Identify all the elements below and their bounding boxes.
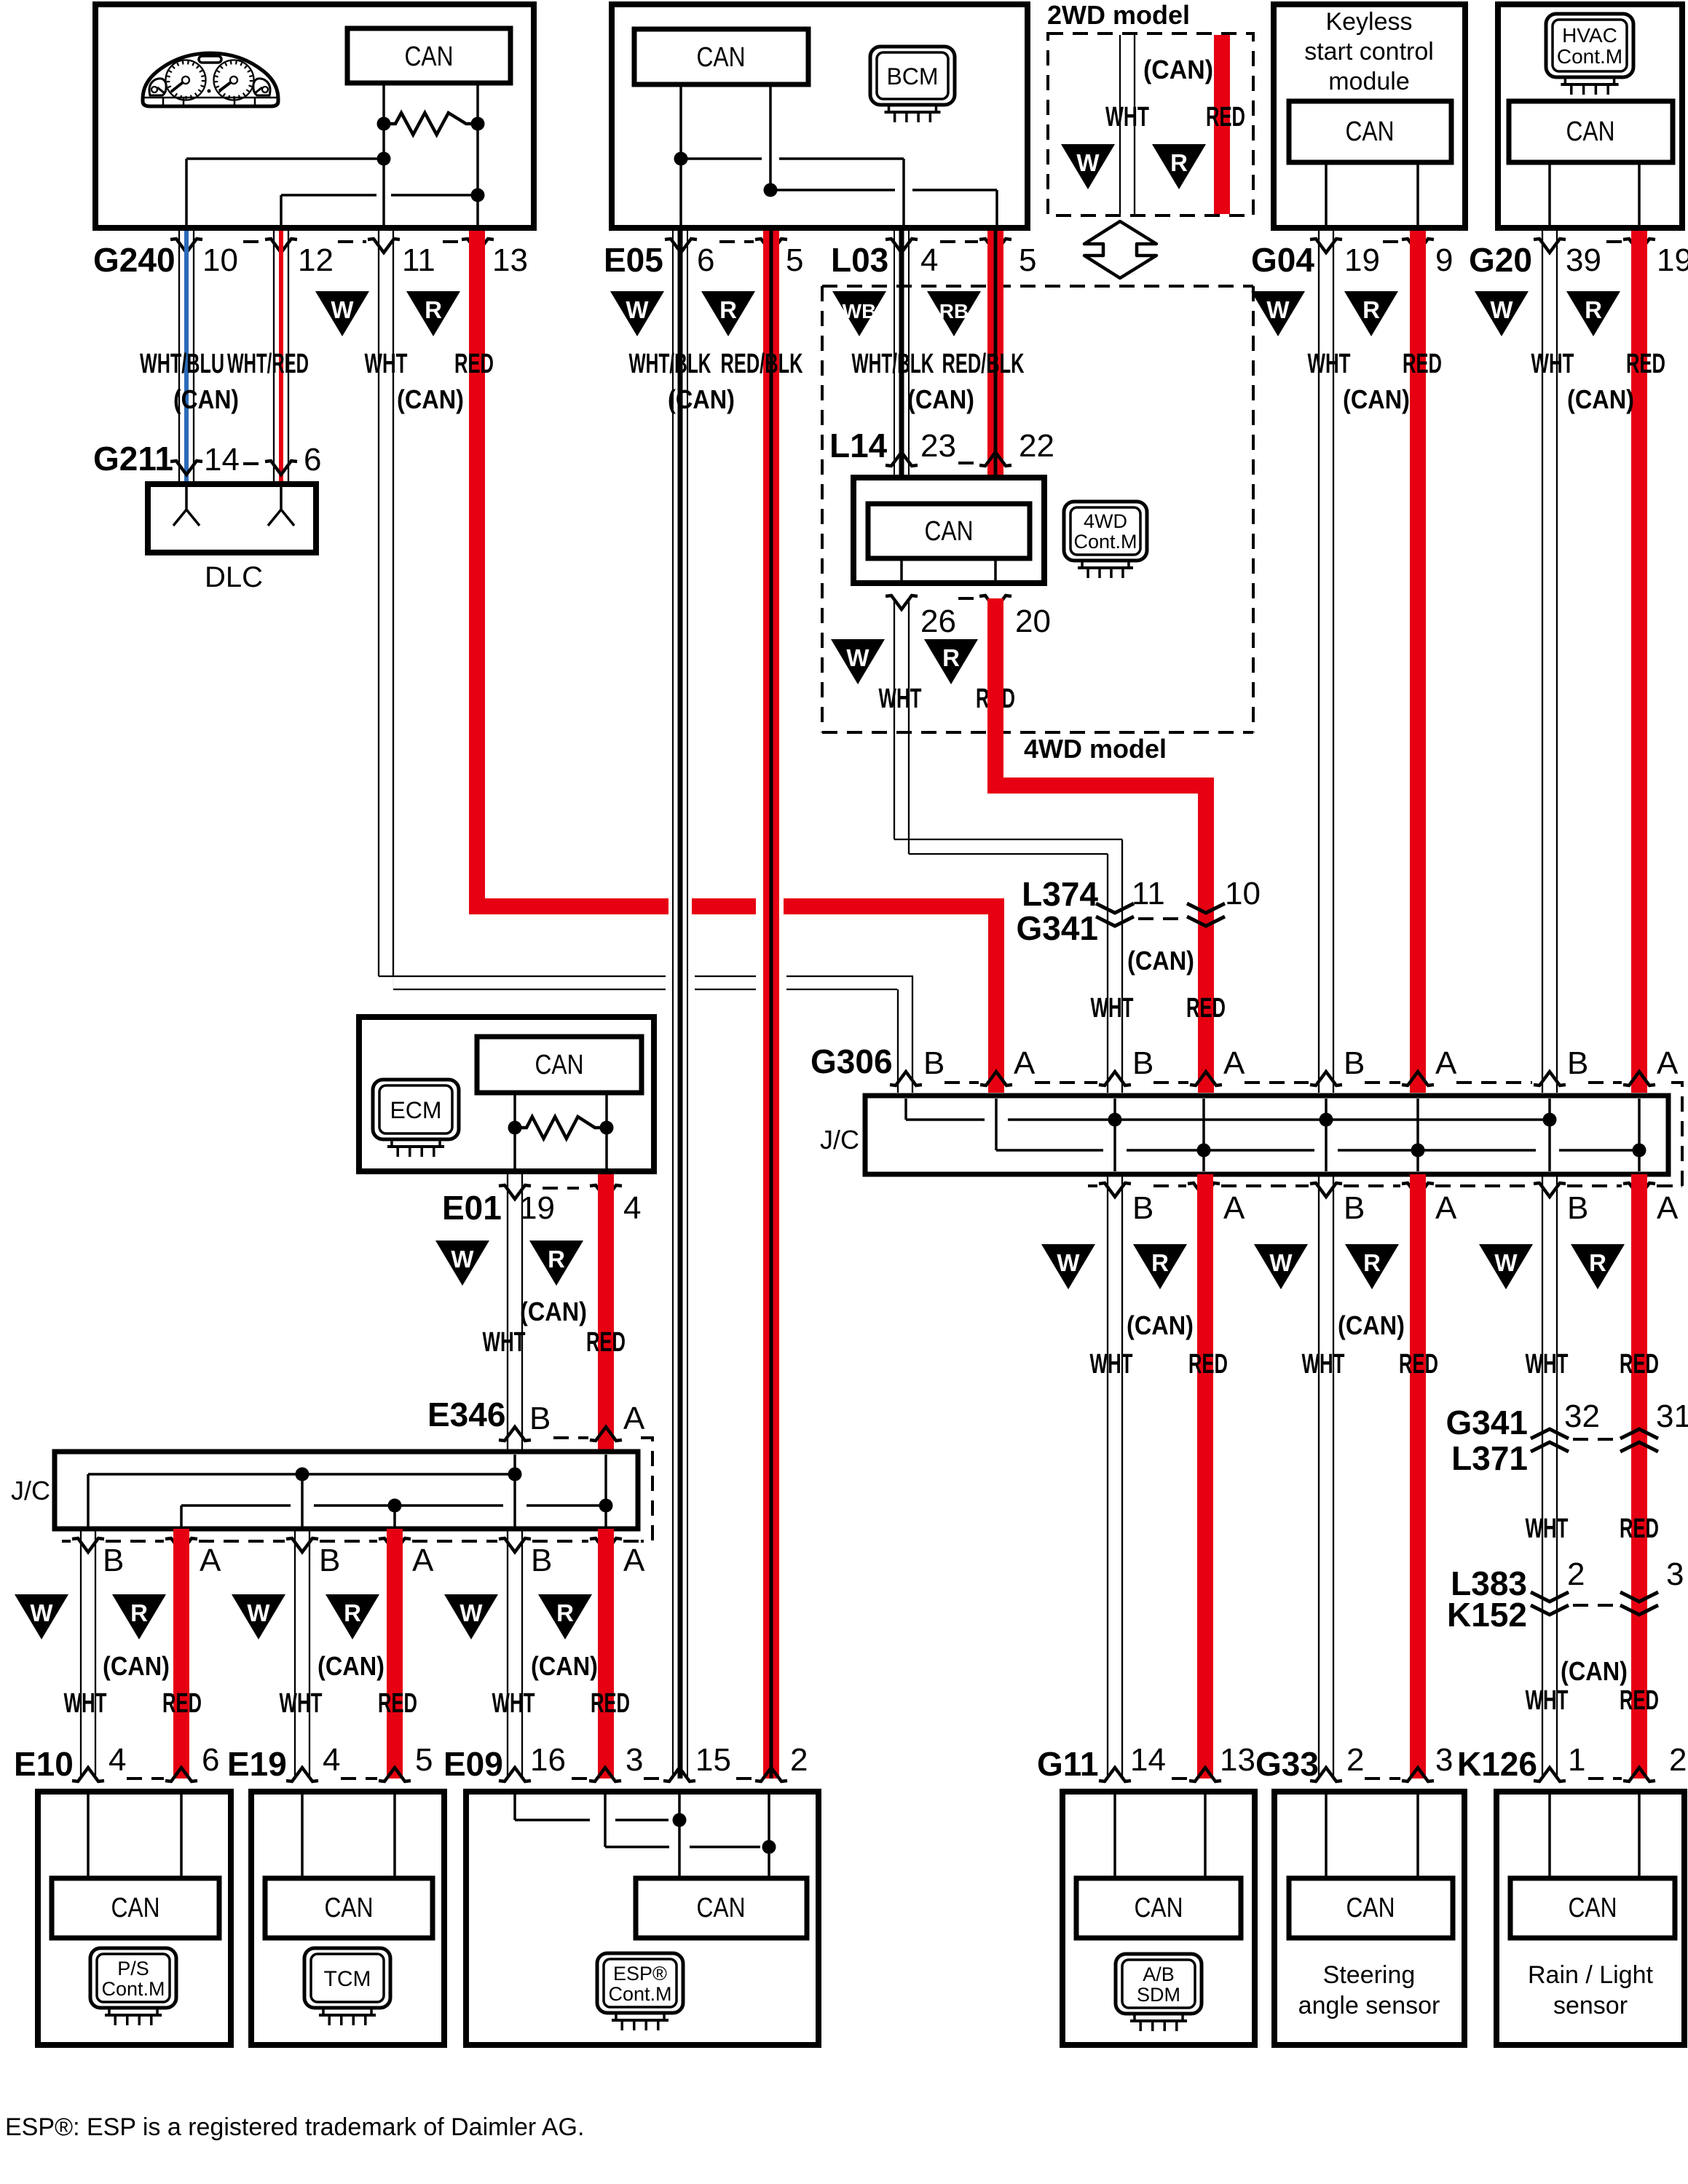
svg-text:module: module (1328, 68, 1410, 95)
svg-text:G211: G211 (93, 440, 173, 478)
svg-text:WHT: WHT (1090, 1349, 1133, 1380)
svg-text:ESP®: ESP is a registered trad: ESP®: ESP is a registered trademark of D… (5, 2113, 584, 2141)
wire RED G20-19 to G306-A (1631, 231, 1647, 1093)
svg-text:E09: E09 (443, 1745, 503, 1783)
svg-text:L374: L374 (1022, 875, 1098, 913)
svg-text:15: 15 (695, 1742, 731, 1778)
wire BCM pin5 branch (770, 189, 895, 191)
svg-text:start control: start control (1304, 38, 1434, 66)
svg-text:B: B (1344, 1045, 1365, 1081)
svg-text:R: R (719, 296, 737, 323)
triangles below E346 (15, 1594, 68, 1639)
DLC pin fork 6 (280, 484, 283, 510)
svg-text:5: 5 (1019, 242, 1036, 278)
wire WHT/RED G240-12 to G211-6 (273, 231, 275, 481)
wire RED G306-A to K126-2 (1631, 1174, 1647, 1779)
svg-text:31: 31 (1656, 1398, 1688, 1434)
wire BCM CAN-L (769, 84, 772, 190)
svg-text:WHT: WHT (1526, 1349, 1569, 1380)
svg-text:WHT/BLK: WHT/BLK (852, 349, 934, 379)
svg-text:4: 4 (920, 242, 938, 278)
svg-text:3: 3 (1435, 1742, 1453, 1778)
svg-text:B: B (319, 1543, 340, 1578)
terminating resistor ECM (508, 1121, 522, 1135)
W triangle E01 (435, 1241, 489, 1286)
P/S CAN box (52, 1878, 219, 1938)
svg-text:A: A (1435, 1045, 1457, 1081)
svg-text:3: 3 (1666, 1556, 1684, 1592)
wire RED E346-A to E09-3 (598, 1529, 614, 1779)
svg-text:4: 4 (323, 1742, 340, 1778)
svg-text:Steering: Steering (1323, 1961, 1416, 1989)
svg-text:WHT: WHT (280, 1688, 323, 1719)
svg-text:WHT: WHT (1308, 349, 1351, 379)
junction dot BCM pin4 branch (674, 152, 688, 166)
DLC pin fork 14 (185, 484, 188, 510)
BCM box (612, 4, 1028, 228)
wire ECM CAN-L (605, 1093, 608, 1171)
svg-text:WHT: WHT (1531, 349, 1574, 379)
svg-text:(CAN): (CAN) (103, 1651, 170, 1681)
svg-text:SDM: SDM (1137, 1984, 1180, 2006)
RED horizontal run to G306 (469, 898, 669, 914)
svg-text:B: B (1344, 1190, 1365, 1226)
ESP control module box (466, 1792, 819, 2045)
wire HVAC CAN-H (1548, 162, 1551, 231)
svg-text:L03: L03 (831, 241, 888, 279)
svg-text:W: W (451, 1246, 474, 1273)
W triangle L14 (831, 639, 885, 684)
svg-text:(CAN): (CAN) (1127, 1310, 1194, 1340)
terminating resistor inside meter (377, 117, 391, 131)
svg-text:R: R (1151, 1249, 1169, 1276)
wire WHT E346-B to E09-16 (507, 1529, 508, 1779)
svg-text:J/C: J/C (11, 1476, 50, 1506)
svg-text:ESP®: ESP® (613, 1963, 667, 1985)
svg-text:WHT: WHT (64, 1688, 107, 1719)
svg-text:CAN: CAN (1346, 116, 1395, 147)
svg-text:TCM: TCM (324, 1967, 371, 1991)
svg-text:RB: RB (939, 300, 969, 323)
wire WHT E01-19 to E346-B (507, 1174, 508, 1452)
svg-text:R: R (1170, 149, 1188, 176)
svg-text:G341: G341 (1446, 1404, 1528, 1441)
svg-text:WB: WB (843, 300, 877, 323)
svg-text:4WD model: 4WD model (1024, 734, 1167, 764)
W triangle G04 (1251, 291, 1305, 336)
svg-text:RED: RED (1620, 1514, 1659, 1544)
svg-text:BCM: BCM (886, 63, 938, 90)
svg-text:G11: G11 (1037, 1745, 1098, 1783)
wires inside ESP box (513, 1792, 516, 1820)
R triangle G240 (406, 291, 460, 336)
svg-text:11: 11 (402, 242, 435, 278)
svg-text:13: 13 (1220, 1742, 1255, 1778)
R triangle G04 (1344, 291, 1398, 336)
svg-text:WHT: WHT (1091, 993, 1134, 1024)
HVAC Cont.M icon (1546, 14, 1633, 77)
svg-text:P/S: P/S (117, 1958, 149, 1979)
svg-text:(CAN): (CAN) (531, 1651, 598, 1681)
svg-text:W: W (1266, 296, 1290, 323)
wire WHT L14-26 staircase to G306-B (894, 598, 895, 839)
svg-text:6: 6 (202, 1742, 219, 1778)
2WD WHT wire (1119, 35, 1121, 214)
svg-text:CAN: CAN (925, 516, 974, 547)
svg-text:R: R (1362, 296, 1380, 323)
W triangle E05 (610, 291, 664, 336)
connector E346 bottom (62, 1540, 71, 1543)
svg-text:2: 2 (1669, 1742, 1687, 1778)
svg-text:CAN: CAN (325, 1893, 374, 1923)
svg-text:(CAN): (CAN) (907, 384, 974, 414)
svg-text:WHT: WHT (1526, 1685, 1569, 1716)
svg-text:A: A (623, 1543, 645, 1578)
svg-text:B: B (1567, 1190, 1588, 1226)
svg-text:W: W (1269, 1249, 1293, 1276)
svg-text:A: A (1435, 1190, 1457, 1226)
connector G306 bottom (1088, 1184, 1097, 1187)
connector L14 lower pins (958, 597, 978, 600)
wire WHT G306-B to G33-2 (1318, 1174, 1320, 1779)
triangles below G306 (1041, 1244, 1095, 1289)
wire RED/BLK L03-5 to L14-22 (987, 231, 1003, 475)
svg-text:(CAN): (CAN) (397, 384, 464, 414)
wire WHT G240-11 (378, 231, 379, 976)
svg-text:WHT: WHT (1526, 1514, 1569, 1544)
wire WHT E346-B to E19-4 (294, 1529, 296, 1779)
svg-text:6: 6 (304, 442, 321, 478)
svg-text:CAN: CAN (1135, 1893, 1183, 1923)
svg-text:E10: E10 (14, 1745, 74, 1783)
svg-text:R: R (556, 1599, 574, 1626)
ESP CAN box (636, 1878, 807, 1938)
2WD R triangle (1152, 144, 1206, 189)
junction dot meter pin12 branch (471, 189, 485, 202)
svg-text:R: R (942, 644, 960, 671)
P/S control module box (38, 1792, 231, 2045)
svg-text:B: B (1132, 1190, 1153, 1226)
svg-text:WHT: WHT (483, 1327, 526, 1358)
svg-text:A/B: A/B (1143, 1963, 1175, 1985)
svg-text:WHT: WHT (365, 349, 408, 379)
svg-text:Cont.M: Cont.M (101, 1978, 165, 2000)
svg-text:G04: G04 (1251, 241, 1314, 279)
WB triangle L03 (832, 291, 886, 336)
svg-text:G20: G20 (1469, 241, 1532, 279)
ESP Cont.M icon (597, 1953, 683, 2013)
svg-text:WHT/BLK: WHT/BLK (629, 349, 711, 379)
svg-text:R: R (425, 296, 442, 323)
svg-text:B: B (923, 1045, 944, 1081)
svg-text:RED: RED (1186, 993, 1226, 1024)
ECM box (359, 1017, 654, 1171)
wire WHT/BLU G240-10 to G211-14 (178, 231, 180, 481)
svg-text:W: W (1490, 296, 1513, 323)
svg-text:G341: G341 (1016, 909, 1098, 947)
svg-text:RED: RED (1403, 349, 1442, 379)
svg-text:E01: E01 (442, 1189, 502, 1227)
2WD-4WD double arrow (1084, 221, 1156, 278)
svg-text:WHT: WHT (492, 1688, 535, 1719)
Rain/Light sensor box (1496, 1792, 1684, 2045)
P/S Cont.M icon (90, 1948, 176, 2008)
svg-text:A: A (623, 1401, 645, 1436)
svg-text:A: A (1014, 1045, 1036, 1081)
Keyless start control module box (1274, 4, 1465, 228)
svg-text:23: 23 (920, 428, 956, 464)
svg-text:2: 2 (1567, 1556, 1585, 1592)
wire RED G04-9 to G306-A (1410, 231, 1426, 1093)
svg-text:WHT: WHT (1105, 102, 1149, 132)
wire RED G306-A to G11-13 (1197, 1174, 1213, 1779)
G306 junction dots (1108, 1113, 1122, 1127)
svg-text:R: R (1363, 1249, 1381, 1276)
svg-text:4: 4 (109, 1742, 126, 1778)
svg-text:B: B (531, 1543, 552, 1578)
svg-text:16: 16 (530, 1742, 566, 1778)
svg-text:4: 4 (623, 1190, 641, 1226)
svg-text:2: 2 (790, 1742, 808, 1778)
wire WHT/BLK E05-6 to E09-15 (672, 231, 674, 1779)
TCM CAN box (265, 1878, 433, 1938)
svg-text:20: 20 (1015, 604, 1051, 639)
svg-text:B: B (529, 1401, 551, 1436)
svg-text:RED: RED (591, 1688, 630, 1719)
svg-text:RED: RED (1399, 1349, 1438, 1380)
combination meter gauge cluster icon (143, 53, 278, 106)
svg-text:RED: RED (1206, 102, 1245, 132)
R triangle E01 (529, 1241, 583, 1286)
svg-text:L371: L371 (1451, 1439, 1528, 1477)
svg-text:A: A (200, 1543, 221, 1578)
R triangle G20 (1566, 291, 1620, 336)
svg-text:5: 5 (415, 1742, 433, 1778)
wire RED E346-A to E19-5 (387, 1529, 403, 1779)
wires inside SDM box (1113, 1792, 1116, 1878)
svg-text:(CAN): (CAN) (1561, 1656, 1628, 1686)
wire keyless CAN-H (1325, 162, 1328, 231)
wire BCM CAN-H (679, 84, 682, 231)
svg-text:19: 19 (1344, 242, 1380, 278)
wire RED L14-20 to G306-A (987, 598, 1003, 794)
svg-text:W: W (247, 1599, 270, 1626)
svg-text:3: 3 (626, 1742, 643, 1778)
svg-text:RED: RED (378, 1688, 417, 1719)
svg-text:12: 12 (298, 242, 334, 278)
svg-text:32: 32 (1564, 1398, 1600, 1434)
svg-text:2WD model: 2WD model (1047, 0, 1190, 30)
wires inside TCM box (301, 1792, 304, 1878)
svg-text:CAN: CAN (1566, 116, 1615, 147)
Keyless CAN box (1289, 101, 1451, 162)
W triangle G240 (315, 291, 369, 336)
combination meter CAN box (347, 28, 510, 83)
svg-text:R: R (130, 1599, 148, 1626)
svg-text:CAN: CAN (1569, 1893, 1617, 1923)
wires inside rain box (1548, 1792, 1551, 1878)
svg-text:W: W (331, 296, 354, 323)
svg-text:CAN: CAN (697, 42, 746, 73)
BCM icon (870, 47, 955, 105)
svg-text:(CAN): (CAN) (1143, 55, 1213, 84)
svg-text:(CAN): (CAN) (1127, 946, 1194, 976)
svg-text:(CAN): (CAN) (1567, 384, 1634, 414)
svg-text:W: W (460, 1599, 483, 1626)
J/C G306 box (865, 1096, 1668, 1174)
svg-text:W: W (1076, 149, 1100, 176)
wire meter pin10 branch (186, 157, 384, 160)
wires inside P/S box (87, 1792, 90, 1878)
svg-text:R: R (1589, 1249, 1606, 1276)
wire RED E346-A to E10-6 (173, 1529, 189, 1779)
wire L14-26 inside module (900, 558, 903, 583)
svg-text:RED: RED (162, 1688, 202, 1719)
G306 internal wires (904, 1099, 907, 1120)
svg-text:RED/BLK: RED/BLK (942, 349, 1025, 379)
HVAC control module box (1498, 4, 1682, 228)
svg-text:(CAN): (CAN) (318, 1651, 384, 1681)
svg-text:E19: E19 (227, 1745, 287, 1783)
svg-text:J/C: J/C (820, 1125, 859, 1155)
svg-text:2: 2 (1346, 1742, 1364, 1778)
svg-text:19: 19 (519, 1190, 555, 1226)
svg-text:RED: RED (1188, 1349, 1228, 1380)
R triangle L14 (924, 639, 978, 684)
svg-text:11: 11 (1132, 876, 1165, 911)
wire RED G240-13 (469, 231, 485, 914)
SDM CAN box (1076, 1878, 1241, 1938)
ECM icon (373, 1080, 459, 1139)
2WD model dashed box (1048, 33, 1253, 215)
svg-text:DLC: DLC (205, 561, 263, 593)
svg-text:W: W (846, 644, 869, 671)
W triangle G20 (1475, 291, 1529, 336)
svg-text:A: A (1223, 1045, 1245, 1081)
wire BCM pin4 branch (681, 157, 762, 160)
svg-text:ECM: ECM (390, 1097, 441, 1123)
svg-text:RED: RED (1620, 1685, 1659, 1716)
svg-text:RED: RED (1620, 1349, 1659, 1380)
TCM icon (304, 1948, 390, 2008)
svg-text:39: 39 (1566, 242, 1601, 278)
wire keyless CAN-L (1416, 162, 1419, 231)
svg-text:(CAN): (CAN) (520, 1297, 587, 1326)
svg-text:E346: E346 (427, 1396, 505, 1433)
svg-text:1: 1 (1568, 1742, 1585, 1778)
svg-text:(CAN): (CAN) (173, 384, 239, 414)
wire L14-20 inside module (994, 558, 997, 583)
svg-text:RED: RED (586, 1327, 626, 1358)
wire WHT G306-B to G11-14 (1107, 1174, 1108, 1779)
2WD W triangle (1061, 144, 1115, 189)
4WD model dashed box (821, 286, 824, 732)
J/C E346 box (55, 1452, 638, 1529)
ECM CAN box (477, 1037, 642, 1093)
HVAC CAN box (1509, 101, 1673, 162)
svg-text:K126: K126 (1457, 1745, 1537, 1783)
svg-text:L14: L14 (829, 427, 888, 464)
wire RED G306-A to G33-3 (1410, 1174, 1426, 1779)
E346 junction dots (296, 1468, 309, 1481)
svg-text:R: R (548, 1246, 565, 1273)
svg-text:W: W (626, 296, 649, 323)
svg-text:E05: E05 (604, 241, 663, 279)
wire HVAC CAN-L (1638, 162, 1641, 231)
svg-text:RED/BLK: RED/BLK (721, 349, 803, 379)
svg-text:HVAC: HVAC (1562, 24, 1617, 47)
svg-text:4WD: 4WD (1084, 510, 1127, 532)
4WD Cont.M icon (1064, 502, 1147, 561)
wire CAN-L inside meter (476, 83, 479, 231)
svg-text:CAN: CAN (535, 1050, 584, 1080)
svg-text:13: 13 (492, 242, 528, 278)
svg-text:W: W (1494, 1249, 1518, 1276)
2WD RED wire (1214, 35, 1230, 214)
svg-text:B: B (103, 1543, 124, 1578)
RB triangle L03 (927, 291, 981, 336)
svg-text:G240: G240 (93, 241, 175, 279)
svg-text:RED: RED (454, 349, 494, 379)
svg-text:A: A (412, 1543, 434, 1578)
wire WHT/BLK L03-4 to L14-23 (894, 231, 895, 475)
wire ECM CAN-H (513, 1093, 516, 1171)
svg-text:CAN: CAN (405, 41, 454, 72)
Rain CAN box (1510, 1878, 1675, 1938)
Steering CAN box (1289, 1878, 1453, 1938)
DLC box (148, 484, 316, 553)
svg-text:A: A (1657, 1045, 1679, 1081)
svg-text:19: 19 (1657, 242, 1688, 278)
svg-text:WHT/RED: WHT/RED (227, 349, 309, 379)
svg-text:G306: G306 (811, 1042, 893, 1080)
4WD control module box (853, 478, 1044, 583)
A/B SDM box (1062, 1792, 1255, 2045)
svg-text:(CAN): (CAN) (1338, 1310, 1405, 1340)
svg-text:RED: RED (1626, 349, 1665, 379)
svg-text:Cont.M: Cont.M (1557, 45, 1622, 68)
A/B SDM icon (1116, 1954, 1202, 2014)
svg-text:CAN: CAN (111, 1893, 160, 1923)
svg-text:K152: K152 (1447, 1596, 1527, 1634)
svg-text:R: R (1585, 296, 1602, 323)
svg-text:G33: G33 (1255, 1745, 1319, 1783)
svg-text:angle sensor: angle sensor (1298, 1992, 1440, 2019)
svg-text:A: A (1657, 1190, 1679, 1226)
svg-text:WHT/BLU: WHT/BLU (140, 349, 224, 379)
svg-text:B: B (1132, 1045, 1153, 1081)
wire RED E01-4 to E346-A (598, 1174, 614, 1452)
svg-text:W: W (30, 1599, 53, 1626)
svg-text:5: 5 (786, 242, 803, 278)
wire WHT G306-B to K126-1 (1542, 1174, 1543, 1779)
R triangle E05 (701, 291, 755, 336)
svg-text:WHT: WHT (879, 684, 922, 714)
svg-text:Cont.M: Cont.M (608, 1983, 671, 2005)
svg-text:14: 14 (204, 442, 240, 478)
wire WHT E346-B to E10-4 (80, 1529, 82, 1779)
svg-text:A: A (1223, 1190, 1245, 1226)
svg-text:Cont.M: Cont.M (1073, 531, 1137, 553)
wires inside steering box (1325, 1792, 1328, 1878)
svg-text:10: 10 (1225, 876, 1261, 911)
svg-text:W: W (1057, 1249, 1080, 1276)
svg-text:(CAN): (CAN) (1343, 384, 1410, 414)
wire RED/BLK E05-5 to E09-2 (763, 231, 779, 1779)
E346 internal wires (513, 1455, 516, 1531)
svg-text:WHT: WHT (1302, 1349, 1345, 1380)
svg-text:R: R (344, 1599, 361, 1626)
